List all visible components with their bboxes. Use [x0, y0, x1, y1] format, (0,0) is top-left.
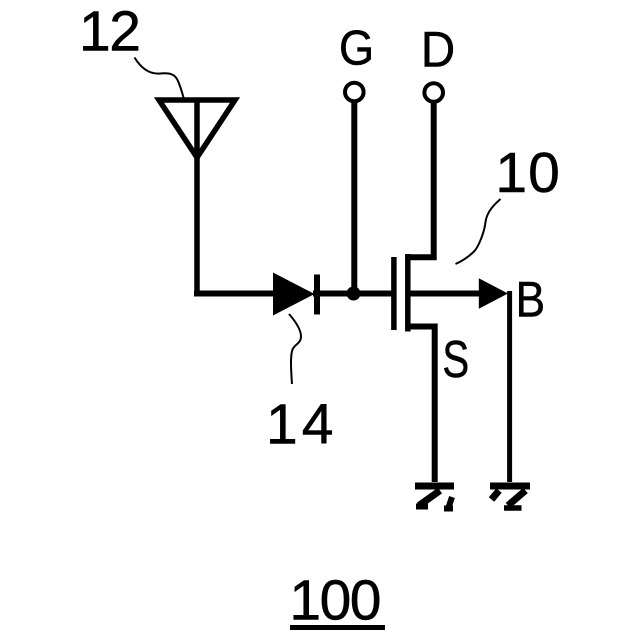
mosfet 10 body arrow	[479, 278, 508, 309]
leader line for 14	[289, 314, 301, 384]
label 12	[79, 0, 139, 63]
terminal D label	[421, 22, 455, 78]
svg-text:12: 12	[79, 0, 139, 63]
wire diode to gate	[313, 291, 394, 297]
ground at body	[490, 486, 530, 508]
svg-text:100: 100	[289, 569, 380, 633]
diode 14	[273, 273, 317, 316]
mosfet 10 channel line	[405, 254, 411, 332]
svg-text:G: G	[339, 20, 374, 75]
underline of 100	[290, 625, 385, 630]
svg-text:B: B	[516, 272, 545, 328]
label 100	[289, 569, 380, 633]
wire D to drain	[408, 104, 434, 258]
terminal B wire	[507, 291, 512, 482]
terminal G circle	[345, 83, 364, 102]
terminal D circle	[424, 83, 443, 102]
antenna 12	[159, 100, 235, 293]
wire antenna to diode	[194, 291, 273, 297]
svg-text:D: D	[421, 22, 455, 78]
terminal G label	[339, 20, 374, 75]
mosfet 10 source stub	[408, 327, 435, 483]
ground at source	[415, 486, 454, 509]
mosfet 10 body wire	[410, 291, 484, 297]
svg-text:14: 14	[266, 393, 337, 457]
label S	[442, 330, 469, 388]
svg-text:10: 10	[495, 141, 560, 205]
terminal B label	[516, 272, 545, 328]
leader line for 10	[456, 199, 501, 264]
junction node	[347, 287, 361, 301]
label 14	[266, 393, 337, 457]
wire G to junction	[351, 103, 357, 290]
mosfet 10 gate line	[391, 257, 397, 330]
label 10	[495, 141, 560, 205]
svg-text:S: S	[442, 330, 469, 388]
leader line for 12	[135, 58, 184, 98]
